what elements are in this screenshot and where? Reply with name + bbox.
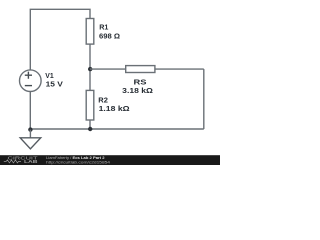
wire V1 bottom to ground node xyxy=(29,91,31,129)
watermark logo zigzag xyxy=(4,160,21,163)
wire R1 bottom to R2 top xyxy=(89,44,91,90)
ground xyxy=(20,138,41,149)
resistor R2 xyxy=(86,90,94,120)
svg-text:698 Ω: 698 Ω xyxy=(99,32,120,41)
svg-text:http://circuitlab.com/c2d15854: http://circuitlab.com/c2d15854 xyxy=(46,160,110,164)
wire top-left loop (V1 top to R1 top) xyxy=(30,9,90,70)
wire R2 bottom stub xyxy=(89,120,91,129)
resistor R1 xyxy=(86,19,94,45)
wire middle right (RS to right corner) xyxy=(155,68,204,70)
svg-text:LAB: LAB xyxy=(24,159,38,165)
node junction B (R2 to bottom wire) xyxy=(88,127,92,131)
svg-text:1.18 kΩ: 1.18 kΩ xyxy=(99,104,130,113)
svg-text:15 V: 15 V xyxy=(46,79,63,88)
node junction C (ground tap) xyxy=(28,127,32,131)
wire right vertical xyxy=(203,69,205,129)
wire ground stub xyxy=(29,130,31,138)
watermark bar xyxy=(0,155,220,165)
resistor RS xyxy=(126,66,155,73)
voltage source V1 xyxy=(20,70,42,92)
svg-text:R2: R2 xyxy=(98,95,108,104)
svg-text:R1: R1 xyxy=(99,23,108,32)
wire middle left (junction to RS) xyxy=(90,68,126,70)
svg-text:3.18 kΩ: 3.18 kΩ xyxy=(122,86,153,95)
svg-text:RS: RS xyxy=(134,77,147,86)
wire bottom xyxy=(30,128,203,130)
node junction A xyxy=(88,67,92,71)
